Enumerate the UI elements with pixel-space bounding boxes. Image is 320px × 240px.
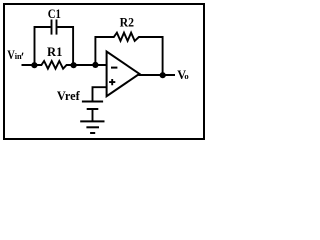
svg-text:R1: R1 [47,45,62,59]
border frame [4,4,204,139]
voltage source Vref: long plate [82,101,103,103]
svg-text:Vref: Vref [57,89,81,103]
svg-text:R2: R2 [120,16,134,30]
op-amp U1 triangle [107,52,140,97]
junction dot: output node (R2 right tap) [160,72,166,78]
ground symbol [80,121,104,133]
wire: op-amp output to Vo [139,74,176,76]
svg-text:in: in [15,52,22,61]
node Vin' label [7,47,23,62]
capacitor C1 plates [52,20,57,35]
svg-text:o: o [184,71,188,81]
wire: C1 branch top-right segment and right vertical [57,27,73,66]
voltage source Vref: short plate [87,108,99,110]
op-amp inverting input minus sign [111,67,117,69]
wire: non-inverting input to Vref source [93,87,107,101]
junction dot: C1 right tap on inverting net [71,62,77,68]
wire: C1 branch left vertical and top-left segment [35,27,51,66]
wire: Vin input with resistor R1 to inverting input node [22,61,107,69]
wire: Vref source to ground [92,109,94,121]
junction dot: R2 left tap on inverting net [92,62,98,68]
svg-text:C1: C1 [48,7,61,21]
op-amp non-inverting input plus sign [109,79,115,85]
wire: feedback branch with resistor R2 from inverting node to output [95,33,162,75]
junction dot: Vin node (C1 left tap) [31,62,37,68]
